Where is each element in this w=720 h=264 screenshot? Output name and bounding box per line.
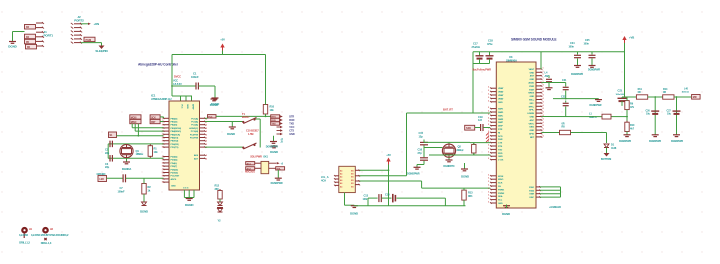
label DGND J1 xyxy=(8,45,17,49)
wire sck3 xyxy=(138,124,140,137)
svg-text:DCD: DCD xyxy=(498,136,503,138)
label R11 xyxy=(638,88,643,94)
svg-text:1: 1 xyxy=(543,71,544,73)
label Q1 xyxy=(136,149,145,156)
svg-text:GND: GND xyxy=(498,156,503,158)
capacitor C16 label xyxy=(418,148,423,155)
svg-text:PB3(MOSI): PB3(MOSI) xyxy=(171,128,182,130)
transistor T1 switch xyxy=(242,118,256,124)
svg-text:STAT: STAT xyxy=(529,88,535,91)
ground t1 xyxy=(229,122,236,129)
svg-text:10k: 10k xyxy=(154,150,159,154)
capacitor C23 xyxy=(618,98,627,101)
svg-text:VBAT: VBAT xyxy=(498,91,504,94)
svg-text:PD5(T): PD5(T) xyxy=(171,166,178,168)
wire r9 wires xyxy=(625,97,628,122)
label R1 xyxy=(154,147,159,154)
wire c19 xyxy=(475,127,491,129)
capacitor C22 label xyxy=(561,95,566,98)
capacitor C16 xyxy=(420,158,428,160)
labels SV1 xyxy=(289,116,295,137)
svg-text:SIMP: SIMP xyxy=(498,122,504,124)
svg-text:1: 1 xyxy=(162,138,163,140)
diode D1 xyxy=(604,144,609,148)
wire rtc mid xyxy=(424,147,442,149)
svg-text:12p: 12p xyxy=(419,134,424,138)
wire V1 vertical xyxy=(406,113,408,176)
svg-text:SIM900 GSM SOUND MODULE: SIM900 GSM SOUND MODULE xyxy=(511,38,557,42)
ground opto xyxy=(275,178,282,180)
U3 right pin names xyxy=(498,68,535,205)
svg-text:4: 4 xyxy=(543,111,544,114)
svg-text:+ON: +ON xyxy=(94,22,100,26)
wire pwr caps top xyxy=(473,51,497,53)
label DGNDPWR r10b xyxy=(619,140,631,143)
U3 pin marks xyxy=(486,132,489,142)
ground C1 xyxy=(212,97,219,100)
IC1 left pins xyxy=(163,118,169,183)
svg-text:470u: 470u xyxy=(487,43,493,46)
label DGNDPWR C24 xyxy=(571,73,583,76)
resistor network RN2 box xyxy=(25,34,36,39)
svg-text:GND: GND xyxy=(529,79,534,81)
svg-text:TXD: TXD xyxy=(498,149,503,151)
svg-text:PD0(RX): PD0(RX) xyxy=(171,144,179,146)
label DGNDPWR rtc xyxy=(407,173,420,176)
capacitor C14 xyxy=(385,193,395,203)
svg-text:+5V: +5V xyxy=(386,153,391,157)
svg-text:PD6(AI): PD6(AI) xyxy=(171,168,179,171)
label SOLI PWR xyxy=(250,156,268,159)
svg-text:DGND: DGND xyxy=(350,212,358,216)
svg-text:PC4/TWI: PC4/TWI xyxy=(190,133,199,136)
svg-text:0R: 0R xyxy=(562,122,565,125)
ground rtc left xyxy=(414,167,421,170)
svg-text:SDA: SDA xyxy=(498,195,503,198)
label DGND IC1 xyxy=(185,203,194,207)
capacitor C1 xyxy=(196,83,198,90)
capacitor C17 xyxy=(476,52,484,64)
label DGNDPWR opto xyxy=(271,182,283,185)
svg-text:LED: LED xyxy=(100,179,105,181)
svg-text:VANT: VANT xyxy=(529,68,535,71)
svg-text:2: 2 xyxy=(488,145,489,147)
U3 bottom right pins xyxy=(536,186,541,198)
svg-text:DRILL1,3: DRILL1,3 xyxy=(19,240,30,244)
label R10b xyxy=(630,124,635,130)
svg-text:SLEEPIN: SLEEPIN xyxy=(95,49,107,53)
title SIM900 module xyxy=(511,38,557,42)
svg-text:DBG: DBG xyxy=(529,127,534,129)
svg-text:STA2: STA2 xyxy=(529,189,535,192)
svg-text:22p: 22p xyxy=(105,165,110,169)
svg-text:DGNDPWR: DGNDPWR xyxy=(588,69,600,72)
svg-text:PB6(X1): PB6(X1) xyxy=(171,138,179,140)
svg-text:2: 2 xyxy=(488,121,489,123)
resistor R1 xyxy=(148,144,152,158)
svg-text:DGND: DGND xyxy=(185,203,194,207)
svg-text:DGNDPWR: DGNDPWR xyxy=(271,182,283,185)
wire vb rail drop xyxy=(624,51,625,53)
capacitor C7 xyxy=(123,174,125,182)
resistor R10 xyxy=(263,103,267,116)
svg-text:DGNDRTC: DGNDRTC xyxy=(443,165,455,168)
wire w1 c xyxy=(674,96,691,98)
svg-text:3: 3 xyxy=(488,202,489,204)
svg-text:DGND: DGND xyxy=(140,210,148,214)
svg-text:2: 2 xyxy=(206,138,207,140)
GSM module U3 body xyxy=(496,62,536,208)
wire vant xyxy=(540,52,543,69)
svg-text:NRES: NRES xyxy=(528,93,534,95)
label moc value xyxy=(245,172,256,174)
capacitor C26 xyxy=(651,111,659,114)
svg-text:2: 2 xyxy=(206,158,207,160)
svg-text:KBR: KBR xyxy=(530,194,535,196)
svg-text:BC817: BC817 xyxy=(242,115,250,119)
label R2 xyxy=(148,185,152,192)
wire r2 bottom xyxy=(143,194,145,202)
diode LED3 xyxy=(217,202,223,212)
IC1 right pin names xyxy=(171,117,199,187)
svg-text:1: 1 xyxy=(162,169,163,171)
net label RESET box xyxy=(208,115,217,119)
connector SV1 pins xyxy=(271,115,283,135)
label LED3 xyxy=(218,219,222,223)
opto right pin2 xyxy=(269,167,276,169)
IC1 right pins xyxy=(200,118,206,160)
wire xtal top xyxy=(108,143,163,145)
svg-text:PC0(A): PC0(A) xyxy=(191,121,198,124)
ground D1 xyxy=(604,153,610,157)
wire rtc top rail2 xyxy=(449,141,490,143)
wire r8 left xyxy=(542,132,560,134)
U3 left pins xyxy=(490,87,496,160)
hole H2 xyxy=(42,227,49,234)
svg-text:3: 3 xyxy=(488,188,489,190)
opto left pins xyxy=(255,163,261,168)
label U3 xyxy=(506,55,517,63)
wire caps right xyxy=(397,198,446,206)
svg-text:1: 1 xyxy=(162,160,163,162)
svg-text:GND: GND xyxy=(498,102,503,104)
net label box MIC xyxy=(692,95,701,100)
ground J1 xyxy=(9,40,16,43)
wire c23 xyxy=(622,97,625,104)
svg-text:C14: C14 xyxy=(385,193,390,197)
wire caps drop xyxy=(367,198,369,206)
svg-text:4: 4 xyxy=(543,134,544,137)
svg-text:VBAT: VBAT xyxy=(498,97,504,100)
svg-text:SIMC: SIMC xyxy=(498,115,504,117)
wire t1 collector xyxy=(256,119,261,148)
svg-text:10u: 10u xyxy=(646,113,650,116)
svg-text:100u/16V: 100u/16V xyxy=(616,94,625,96)
svg-text:3: 3 xyxy=(488,174,489,176)
svg-text:+VB: +VB xyxy=(629,36,634,40)
wire q1 stub xyxy=(126,158,128,161)
svg-text:GND: GND xyxy=(289,133,295,136)
svg-text:4: 4 xyxy=(543,117,544,120)
svg-text:2: 2 xyxy=(206,141,207,143)
wire xtal bottom xyxy=(108,157,163,159)
crystal Q2 xyxy=(442,144,455,157)
svg-text:10u: 10u xyxy=(667,113,671,116)
svg-text:PC5/TWI: PC5/TWI xyxy=(190,138,199,140)
svg-text:4: 4 xyxy=(543,124,544,127)
net label box SOL xyxy=(276,167,285,171)
svg-text:3: 3 xyxy=(488,198,489,200)
svg-text:KBC: KBC xyxy=(530,197,535,199)
svg-text:ADC6: ADC6 xyxy=(171,178,177,181)
node +5V arrow xyxy=(386,153,391,165)
wire C1 left xyxy=(172,85,196,87)
label C7 xyxy=(118,186,126,193)
net label box AC1 xyxy=(246,162,255,166)
ground C25 xyxy=(589,65,596,68)
svg-text:400mA: 400mA xyxy=(682,91,689,94)
resistor R8 xyxy=(560,130,571,134)
svg-text:DGND: DGND xyxy=(270,150,278,154)
svg-text:100n: 100n xyxy=(569,45,575,48)
label DVCC xyxy=(173,75,182,86)
svg-text:2: 2 xyxy=(206,144,207,146)
svg-text:1: 1 xyxy=(162,125,163,127)
label H2 value xyxy=(31,233,69,237)
svg-text:PB0(D): PB0(D) xyxy=(171,118,178,120)
svg-text:2: 2 xyxy=(488,124,489,126)
capacitor C18 label xyxy=(487,39,493,47)
svg-text:BAT_RT: BAT_RT xyxy=(443,108,453,112)
capacitor C19 label xyxy=(478,115,483,122)
resistor R13 xyxy=(462,189,466,202)
label BAT_RT xyxy=(443,108,453,112)
ground C24 xyxy=(574,65,581,68)
net label PGM J2 xyxy=(84,37,95,42)
svg-text:1.5M: 1.5M xyxy=(248,132,253,136)
label LED2 xyxy=(140,210,148,214)
svg-text:16MHz: 16MHz xyxy=(136,152,145,156)
capacitor ant xyxy=(546,76,552,87)
label R10 xyxy=(270,105,275,112)
svg-text:1: 1 xyxy=(543,74,544,76)
svg-text:PB4(MISO): PB4(MISO) xyxy=(171,130,182,133)
svg-text:3,2-PAD: 3,2-PAD xyxy=(19,233,28,237)
capacitor C19 xyxy=(481,124,483,131)
svg-text:PD4(L): PD4(L) xyxy=(171,162,178,165)
svg-text:4CH: 4CH xyxy=(321,178,326,182)
svg-text:3: 3 xyxy=(488,185,489,187)
label R14 xyxy=(663,88,668,94)
IC2 pin names xyxy=(340,169,354,188)
svg-text:PC3(AI): PC3(AI) xyxy=(191,130,199,133)
svg-text:C21: C21 xyxy=(562,79,567,82)
resistor R14 xyxy=(663,95,674,99)
crystal Q1 xyxy=(120,145,133,158)
label DGND Q2 xyxy=(443,165,455,168)
svg-text:2: 2 xyxy=(488,90,489,92)
svg-text:AGND(C): AGND(C) xyxy=(189,127,198,130)
wire ic2 gnd xyxy=(345,193,355,206)
label DGND IC2 xyxy=(350,212,358,216)
capacitor C24 xyxy=(574,52,581,65)
svg-text:100n: 100n xyxy=(584,42,590,45)
IC2 right pins xyxy=(355,170,360,186)
svg-text:4: 4 xyxy=(543,107,544,110)
svg-text:GND: GND xyxy=(186,104,188,109)
transistor T2 switch xyxy=(242,143,256,149)
resistor R2 xyxy=(142,182,146,196)
svg-text:PB2(S): PB2(S) xyxy=(171,125,178,127)
wire J1 gnd xyxy=(13,32,25,41)
svg-text:DGND: DGND xyxy=(227,132,235,136)
label IC2 xyxy=(321,175,329,182)
diode LED2 xyxy=(142,202,147,206)
label DGNDPWR C25 xyxy=(588,69,600,72)
wire U3 keypad xyxy=(540,187,561,197)
label H1 ref xyxy=(29,228,33,231)
label DGNDPWR C26 xyxy=(649,140,661,143)
capacitor C21 xyxy=(562,79,569,90)
wire vb rail xyxy=(497,51,624,53)
svg-text:RTS: RTS xyxy=(498,146,503,148)
wire w1 drop1 xyxy=(654,96,656,134)
svg-text:VBAT: VBAT xyxy=(498,94,504,97)
svg-text:100nF: 100nF xyxy=(191,75,199,79)
U3 left pin numbers xyxy=(488,87,489,160)
label C10 xyxy=(246,129,259,136)
svg-text:GND: GND xyxy=(529,117,534,119)
net label box AC2 xyxy=(246,167,255,171)
svg-text:GND: GND xyxy=(529,96,534,98)
ground audio xyxy=(595,99,602,102)
net label box SXD xyxy=(465,125,475,130)
capacitor C25 xyxy=(589,52,596,65)
wire v2 vertical xyxy=(421,181,423,188)
svg-text:+5V: +5V xyxy=(220,38,225,42)
svg-text:4: 4 xyxy=(543,90,544,93)
svg-text:MOC3021: MOC3021 xyxy=(245,172,256,174)
wire caps mid xyxy=(368,197,378,199)
node +VB arrow xyxy=(622,36,634,44)
svg-text:2: 2 xyxy=(488,111,489,113)
wire pwr vert xyxy=(472,52,474,113)
wire mosi xyxy=(160,117,163,118)
svg-text:3,2-PAD MOUNT-PAD-ROUND3,2: 3,2-PAD MOUNT-PAD-ROUND3,2 xyxy=(31,233,69,237)
title Atmega328 controller xyxy=(138,63,179,67)
resistor R5 rtc xyxy=(472,143,476,155)
svg-text:DRILL1,3: DRILL1,3 xyxy=(41,241,52,245)
svg-text:1: 1 xyxy=(543,67,544,69)
wire r5 wires xyxy=(473,143,475,155)
wire +5v drop xyxy=(388,165,390,206)
wire r10 bottom xyxy=(265,114,267,116)
svg-text:4: 4 xyxy=(543,100,544,103)
wire rtc vert xyxy=(423,140,425,165)
svg-text:1: 1 xyxy=(162,166,163,168)
wire r10b bottom xyxy=(626,132,628,135)
svg-text:22p: 22p xyxy=(105,151,110,155)
IC1 left pin numbers xyxy=(162,118,163,184)
label Q2 xyxy=(457,145,465,152)
capacitor C15 xyxy=(420,142,428,144)
U3 lower left pins xyxy=(490,175,496,204)
IC1 right pin numbers xyxy=(206,118,207,160)
svg-text:PWM1: PWM1 xyxy=(498,189,505,191)
label R12 xyxy=(215,184,220,191)
wire vb drop xyxy=(624,43,626,97)
svg-text:MOSI: MOSI xyxy=(498,176,504,178)
svg-text:PD7(AI): PD7(AI) xyxy=(171,172,179,175)
svg-text:ATMEGA328P-AU: ATMEGA328P-AU xyxy=(151,97,172,101)
svg-text:MISO: MISO xyxy=(131,122,137,124)
label DGND t2 xyxy=(270,150,278,154)
svg-text:SIMV: SIMV xyxy=(498,109,504,111)
svg-text:PWR: PWR xyxy=(529,86,534,88)
svg-text:1: 1 xyxy=(162,147,163,149)
svg-text:3: 3 xyxy=(488,178,489,180)
wire r8 right xyxy=(571,133,607,144)
wire led row1 xyxy=(107,177,123,179)
resistor R9 xyxy=(625,99,629,111)
svg-text:3: 3 xyxy=(488,191,489,193)
wire bottom rail xyxy=(354,205,466,207)
svg-text:100nF: 100nF xyxy=(118,189,126,193)
op-amp U1 IC1 ATMEGA328 body xyxy=(169,101,200,190)
IC2 body xyxy=(339,166,356,192)
IC1 top pin names xyxy=(181,104,195,110)
svg-text:RXD: RXD xyxy=(498,153,503,155)
wire reset xyxy=(205,116,271,119)
net label box KEY xyxy=(109,132,117,138)
wire sck2 xyxy=(135,124,163,131)
net label box MOSI xyxy=(130,115,141,120)
svg-text:SPK-: SPK- xyxy=(529,110,534,112)
svg-text:1: 1 xyxy=(162,141,163,143)
svg-text:GND: GND xyxy=(529,72,534,74)
capacitor C27 xyxy=(673,111,681,114)
wire sv1 gnd xyxy=(273,136,275,141)
svg-text:PC6-RST: PC6-RST xyxy=(171,176,180,178)
label IC1 xyxy=(151,94,172,102)
label DGND U3 xyxy=(502,212,510,216)
svg-text:VCC: VCC xyxy=(181,104,183,109)
svg-text:DISP: DISP xyxy=(498,126,503,128)
label DGND top right xyxy=(210,103,219,107)
svg-text:27p: 27p xyxy=(418,151,423,155)
svg-text:1: 1 xyxy=(162,163,163,165)
svg-text:2: 2 xyxy=(488,107,489,109)
capacitor C15 label xyxy=(419,131,424,138)
svg-text:DGNDPWR: DGNDPWR xyxy=(266,146,278,149)
svg-text:DGNDA: DGNDA xyxy=(122,167,132,171)
svg-text:1: 1 xyxy=(162,179,163,181)
ground Q2 xyxy=(446,160,453,162)
wire rtc bottom rail xyxy=(429,154,490,156)
svg-text:2: 2 xyxy=(206,125,207,127)
resistor R12 xyxy=(218,189,222,201)
wire bat xyxy=(407,112,491,114)
svg-text:4: 4 xyxy=(543,121,544,124)
svg-text:MIC+: MIC+ xyxy=(529,100,535,102)
wire audio2 xyxy=(553,91,599,100)
optocoupler OK1 body xyxy=(261,161,269,173)
svg-text:2: 2 xyxy=(488,114,489,116)
svg-text:PB7(X2): PB7(X2) xyxy=(171,141,179,143)
capacitor C24 label xyxy=(569,41,576,48)
svg-text:GND: GND xyxy=(498,203,503,205)
U3 right pin numbers xyxy=(543,83,544,137)
